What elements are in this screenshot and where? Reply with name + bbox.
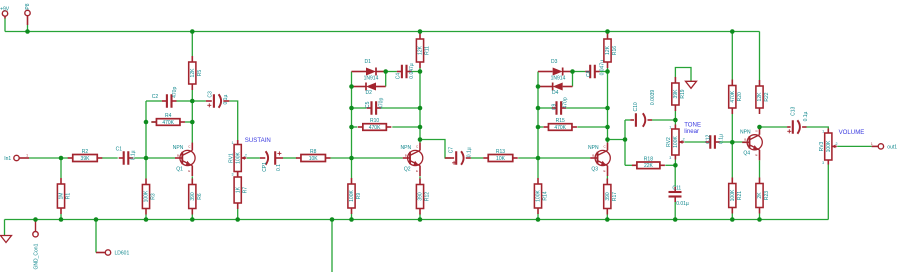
resistor R2 bbox=[68, 149, 103, 162]
capacitor C5 bbox=[365, 98, 385, 115]
svg-text:0.01µ: 0.01µ bbox=[676, 201, 689, 207]
wire C4 to R11 node bbox=[412, 71, 421, 73]
wire to Q2 base bbox=[352, 157, 403, 159]
svg-text:C3: C3 bbox=[208, 91, 214, 98]
resistor R16 bbox=[604, 33, 618, 68]
wire C10 to RV2 node bbox=[652, 119, 675, 121]
svg-text:R11: R11 bbox=[425, 46, 431, 55]
wire R10 right sliver bbox=[392, 126, 420, 128]
resistor R12 bbox=[416, 179, 430, 215]
resistor R13 bbox=[483, 149, 518, 162]
wire rail to R22 bbox=[759, 32, 761, 81]
wire In1 to R2 bbox=[29, 157, 68, 159]
svg-text:NPN: NPN bbox=[401, 145, 412, 151]
svg-text:R20: R20 bbox=[737, 92, 743, 101]
wire C9 left bbox=[538, 107, 551, 109]
wire diodes to C8 bbox=[573, 71, 586, 73]
resistor R6 bbox=[189, 179, 203, 215]
svg-text:R17: R17 bbox=[612, 192, 618, 201]
wire rail to R20 bbox=[731, 32, 733, 80]
svg-text:C10: C10 bbox=[633, 102, 639, 111]
wire stage3 diode right bar bbox=[572, 72, 574, 87]
wire +9V drop bbox=[4, 19, 6, 32]
wire to C10 bbox=[625, 119, 630, 121]
svg-text:C4: C4 bbox=[396, 73, 402, 80]
wire R4 left sliver bbox=[151, 121, 156, 123]
svg-text:VOLUME: VOLUME bbox=[839, 129, 865, 136]
wire Q2 emitter to R12 bbox=[419, 176, 421, 178]
svg-text:C12: C12 bbox=[705, 135, 711, 144]
svg-text:470K: 470K bbox=[369, 125, 381, 131]
svg-text:1N914: 1N914 bbox=[551, 76, 566, 82]
resistor R3 bbox=[142, 179, 156, 215]
svg-text:R15: R15 bbox=[556, 118, 565, 124]
resistor R1 bbox=[57, 178, 71, 214]
svg-text:Q3: Q3 bbox=[591, 166, 598, 172]
wire R23 to rail bbox=[759, 214, 761, 220]
capacitor C9 bbox=[552, 97, 569, 115]
svg-text:R21: R21 bbox=[737, 191, 743, 200]
wire C13 to RV3 bbox=[807, 127, 829, 129]
svg-text:C8: C8 bbox=[586, 70, 592, 77]
wire C11 to rail bbox=[674, 202, 676, 220]
wire stage3 left vertical bbox=[537, 72, 539, 179]
wire R1 to rail bbox=[60, 214, 62, 220]
wire RV2 pin3 sliver bbox=[674, 160, 676, 166]
svg-text:R23: R23 bbox=[764, 191, 770, 200]
svg-text:R22: R22 bbox=[764, 92, 770, 101]
wire stub leaving bottom edge bbox=[331, 220, 333, 272]
capacitor C7 bbox=[448, 147, 472, 165]
wire R13 to Q3 base node bbox=[518, 157, 538, 159]
svg-text:E: E bbox=[604, 169, 606, 173]
connector P8 bbox=[25, 10, 30, 15]
wire rail to R11 bbox=[419, 32, 421, 34]
svg-text:R12: R12 bbox=[425, 192, 431, 201]
svg-text:2: 2 bbox=[683, 138, 685, 142]
svg-text:1N914: 1N914 bbox=[364, 76, 379, 82]
svg-text:3: 3 bbox=[669, 156, 671, 160]
svg-text:0.047µ: 0.047µ bbox=[409, 63, 415, 79]
svg-text:12K: 12K bbox=[757, 92, 763, 102]
svg-text:C: C bbox=[188, 145, 191, 149]
svg-text:NPN: NPN bbox=[173, 145, 184, 151]
wire C5 left bbox=[352, 107, 367, 109]
svg-text:39K: 39K bbox=[673, 89, 679, 99]
connector out1 bbox=[878, 144, 883, 149]
wire RV3 wiper to out1 bbox=[837, 145, 871, 147]
svg-text:2: 2 bbox=[245, 154, 247, 158]
svg-text:100K: 100K bbox=[673, 136, 679, 148]
diode D1 bbox=[352, 68, 386, 76]
capacitor C13 bbox=[787, 107, 809, 134]
svg-text:R3: R3 bbox=[151, 193, 157, 200]
resistor R10 bbox=[358, 118, 392, 131]
wire stage2 left vertical bbox=[351, 72, 353, 179]
wire ground bottom rail bbox=[5, 219, 829, 221]
svg-text:B: B bbox=[405, 153, 407, 157]
svg-text:C5: C5 bbox=[365, 101, 371, 108]
capacitor C3 bbox=[207, 91, 229, 108]
svg-text:0.1µ: 0.1µ bbox=[718, 134, 724, 144]
svg-text:100K: 100K bbox=[349, 190, 355, 202]
wire base node to R21 bbox=[731, 142, 733, 177]
transistor Q1 bbox=[173, 143, 195, 176]
svg-text:12K: 12K bbox=[190, 68, 196, 78]
svg-text:390: 390 bbox=[190, 192, 196, 201]
wire R15 left sliver bbox=[538, 126, 543, 128]
wire R2 to C1 bbox=[102, 157, 118, 159]
transistor Q2 bbox=[401, 143, 423, 176]
resistor R18 bbox=[632, 156, 665, 169]
svg-text:390: 390 bbox=[418, 192, 424, 201]
wire stage2 right vertical bbox=[419, 68, 421, 143]
wire C5 right bbox=[381, 107, 420, 109]
wire R10 left sliver bbox=[352, 126, 358, 128]
wire stage2 diode right bar bbox=[385, 72, 387, 87]
svg-text:R16: R16 bbox=[612, 46, 618, 55]
svg-text:+9V: +9V bbox=[0, 6, 10, 12]
wire stage3 right vertical bbox=[607, 68, 609, 143]
svg-text:100K: 100K bbox=[536, 190, 542, 202]
svg-text:470K: 470K bbox=[730, 90, 736, 102]
svg-text:E: E bbox=[756, 153, 758, 157]
wire R14 to rail bbox=[537, 214, 539, 220]
svg-text:470K: 470K bbox=[554, 125, 566, 131]
wire R15 right sliver bbox=[577, 126, 607, 128]
svg-text:D4: D4 bbox=[552, 90, 559, 96]
wire C7 to R13 bbox=[471, 157, 484, 159]
svg-text:E: E bbox=[416, 169, 418, 173]
svg-text:100K: 100K bbox=[144, 190, 150, 202]
resistor R11 bbox=[416, 33, 430, 68]
svg-text:R10: R10 bbox=[370, 118, 379, 124]
resistor R23 bbox=[756, 178, 770, 214]
resistor R19 bbox=[672, 77, 686, 111]
svg-text:C13: C13 bbox=[791, 107, 797, 116]
svg-text:R1: R1 bbox=[66, 193, 72, 200]
svg-text:SUSTAIN: SUSTAIN bbox=[245, 137, 271, 144]
wire to Q3 base bbox=[538, 157, 590, 159]
svg-text:12K: 12K bbox=[418, 45, 424, 55]
wire R9 to rail bbox=[351, 214, 353, 220]
svg-text:C9: C9 bbox=[552, 103, 558, 110]
svg-text:C11: C11 bbox=[672, 185, 681, 191]
wire R18 to RV2 pin3 bbox=[665, 164, 675, 166]
wire RV3 pin3 to rail bbox=[827, 165, 829, 220]
potentiometer RV3 volume bbox=[819, 129, 838, 165]
svg-text:1: 1 bbox=[822, 129, 824, 133]
capacitor C10 bbox=[633, 90, 656, 127]
wire node to RV2 pin1 bbox=[674, 120, 676, 125]
wire CP1 to R8 bbox=[283, 157, 297, 159]
power terminal +9V bbox=[2, 11, 7, 16]
resistor R17 bbox=[604, 179, 618, 215]
wire R6 to rail bbox=[191, 215, 193, 220]
svg-text:D3: D3 bbox=[551, 59, 558, 65]
transistor Q4 bbox=[740, 127, 762, 160]
capacitor C4 bbox=[396, 63, 415, 79]
svg-text:linear: linear bbox=[684, 128, 699, 135]
svg-text:3: 3 bbox=[822, 161, 824, 165]
wire node to R1 bbox=[60, 158, 62, 178]
svg-text:0.1µ: 0.1µ bbox=[130, 150, 136, 160]
resistor R21 bbox=[729, 178, 743, 214]
wire R19 to ground bbox=[675, 68, 691, 82]
wire Q3 collector to tone node bbox=[608, 139, 626, 141]
svg-text:C: C bbox=[416, 145, 419, 149]
wire node to R3 bbox=[145, 158, 147, 179]
svg-text:C: C bbox=[604, 145, 607, 149]
potentiometer RV2 tone bbox=[666, 125, 685, 160]
svg-text:RV3: RV3 bbox=[819, 141, 825, 151]
svg-text:R8: R8 bbox=[310, 149, 317, 155]
wire +9V top rail bbox=[5, 31, 760, 33]
wire R7 to ground rail bbox=[237, 209, 239, 220]
svg-text:0.0039: 0.0039 bbox=[650, 90, 656, 106]
svg-text:R6: R6 bbox=[197, 193, 203, 200]
wire Q4 collector to C13 bbox=[760, 126, 788, 128]
resistor R22 bbox=[756, 80, 770, 114]
svg-text:NPN: NPN bbox=[588, 145, 599, 151]
capacitor C2 bbox=[152, 87, 178, 108]
svg-text:C2: C2 bbox=[152, 94, 159, 100]
svg-text:1: 1 bbox=[232, 141, 234, 145]
wire C12 to Q4 base bbox=[720, 141, 746, 143]
wire node to C3 bbox=[192, 100, 206, 102]
wire rail to LD601 bbox=[95, 220, 97, 253]
wire RV2 wiper to C12 bbox=[684, 141, 705, 143]
svg-text:3: 3 bbox=[232, 172, 234, 176]
svg-text:1: 1 bbox=[669, 125, 671, 129]
wire RV1 wiper to CP1 bbox=[247, 157, 260, 159]
svg-text:12K: 12K bbox=[605, 45, 611, 55]
wire tone vertical bbox=[624, 120, 626, 165]
svg-text:LD601: LD601 bbox=[115, 251, 130, 257]
svg-text:1K: 1K bbox=[235, 186, 241, 193]
svg-text:100K: 100K bbox=[235, 152, 241, 164]
connector LD601 bbox=[105, 250, 110, 255]
diode D2 bbox=[352, 83, 386, 91]
svg-text:R4: R4 bbox=[165, 113, 172, 119]
svg-text:R18: R18 bbox=[644, 156, 653, 162]
connector In1 bbox=[14, 155, 19, 160]
wire Q4 emitter to R23 bbox=[759, 160, 761, 177]
svg-text:C1: C1 bbox=[116, 146, 123, 152]
ground symbol main bbox=[1, 236, 12, 243]
svg-text:R2: R2 bbox=[82, 149, 89, 155]
resistor R5 bbox=[189, 56, 203, 90]
wire Q2 collector to C7 bbox=[420, 140, 451, 159]
svg-text:P8: P8 bbox=[25, 3, 31, 9]
wire C8 to R16 node bbox=[600, 71, 608, 73]
svg-text:B: B bbox=[744, 138, 746, 142]
wire R17 to rail bbox=[606, 214, 608, 220]
svg-text:C: C bbox=[756, 129, 759, 133]
svg-text:Q4: Q4 bbox=[743, 151, 750, 157]
svg-text:R14: R14 bbox=[543, 191, 549, 200]
svg-text:0.1: 0.1 bbox=[276, 164, 282, 171]
svg-text:1: 1 bbox=[871, 142, 873, 146]
capacitor C1 bbox=[116, 146, 137, 164]
svg-text:39K: 39K bbox=[81, 156, 91, 162]
svg-text:470p: 470p bbox=[563, 97, 569, 108]
wire diodes to C4 bbox=[386, 71, 397, 73]
capacitor CP1 bbox=[262, 151, 282, 172]
resistor R14 bbox=[534, 178, 548, 214]
resistor R8 bbox=[296, 149, 331, 162]
wire rail to R16 bbox=[607, 32, 609, 34]
svg-text:RV1: RV1 bbox=[228, 153, 234, 163]
wire R21 to rail bbox=[731, 214, 733, 220]
svg-text:B: B bbox=[592, 153, 594, 157]
svg-text:1M: 1M bbox=[59, 193, 65, 200]
resistor R20 bbox=[729, 80, 743, 115]
connector GND_Con1 bbox=[33, 232, 38, 237]
svg-text:1: 1 bbox=[26, 153, 28, 157]
svg-text:2: 2 bbox=[836, 142, 838, 146]
diode D3 bbox=[538, 68, 573, 76]
capacitor C11 bbox=[669, 185, 689, 207]
wire R19 to node bbox=[674, 111, 676, 120]
potentiometer RV1 sustain bbox=[228, 140, 247, 176]
svg-text:D2: D2 bbox=[366, 90, 373, 96]
svg-text:10K: 10K bbox=[496, 156, 506, 162]
svg-text:0.1µ: 0.1µ bbox=[223, 95, 229, 105]
diode D4 bbox=[538, 83, 573, 91]
svg-text:CP1: CP1 bbox=[262, 162, 268, 172]
svg-text:D1: D1 bbox=[365, 59, 372, 65]
wire C9 right bbox=[566, 107, 607, 109]
svg-text:C7: C7 bbox=[448, 147, 454, 154]
resistor R4 bbox=[151, 113, 185, 126]
wire R20 to base node bbox=[731, 114, 733, 142]
resistor R7 bbox=[234, 171, 248, 209]
svg-text:R5: R5 bbox=[197, 70, 203, 77]
svg-text:In1: In1 bbox=[4, 156, 11, 162]
wire R8 to Q2 base node bbox=[330, 157, 351, 159]
svg-text:2K: 2K bbox=[757, 192, 763, 199]
ground symbol tone bbox=[686, 81, 697, 88]
svg-text:470p: 470p bbox=[172, 87, 178, 98]
svg-text:10K: 10K bbox=[309, 156, 319, 162]
wire C3 to RV1 bbox=[229, 101, 237, 141]
svg-text:0.1µ: 0.1µ bbox=[466, 147, 472, 157]
svg-text:E: E bbox=[188, 169, 190, 173]
wire R3 to rail bbox=[145, 215, 147, 220]
svg-text:470p: 470p bbox=[379, 98, 385, 109]
svg-text:out1: out1 bbox=[887, 145, 897, 151]
wire rail to ground symbol bbox=[4, 220, 6, 236]
svg-text:22K: 22K bbox=[644, 163, 654, 169]
svg-text:RV2: RV2 bbox=[666, 137, 672, 147]
svg-text:100K: 100K bbox=[826, 140, 832, 152]
wire C2 right to collector node bbox=[177, 100, 193, 102]
wire Q3 emitter to R17 bbox=[606, 176, 608, 179]
wire to C2 left bbox=[146, 100, 162, 102]
wire R5 to node bbox=[191, 90, 193, 101]
svg-text:R7: R7 bbox=[242, 187, 248, 194]
wire Q1 emitter to R6 bbox=[191, 176, 193, 178]
capacitor C12 bbox=[705, 134, 724, 149]
wire collector vertical Q1 bbox=[191, 101, 193, 143]
svg-text:Q1: Q1 bbox=[176, 166, 183, 172]
wire base node vertical bbox=[145, 101, 147, 158]
resistor R9 bbox=[348, 178, 362, 214]
transistor Q3 bbox=[588, 143, 610, 176]
wire rail to R5 bbox=[191, 32, 193, 57]
svg-text:NPN: NPN bbox=[740, 129, 751, 135]
svg-text:470K: 470K bbox=[162, 120, 174, 126]
svg-text:R9: R9 bbox=[356, 193, 362, 200]
svg-text:B: B bbox=[177, 153, 179, 157]
svg-text:R19: R19 bbox=[680, 89, 686, 98]
resistor R15 bbox=[543, 118, 577, 131]
svg-text:GND_Con1: GND_Con1 bbox=[33, 243, 39, 269]
wire R4 right to collector bbox=[185, 121, 192, 123]
svg-text:Q2: Q2 bbox=[404, 166, 411, 172]
capacitor C8 bbox=[585, 60, 605, 78]
wire tone to R18 bbox=[625, 164, 632, 166]
wire R12 to rail bbox=[419, 214, 421, 220]
svg-text:0.1µ: 0.1µ bbox=[803, 111, 809, 121]
svg-text:100K: 100K bbox=[730, 189, 736, 201]
svg-text:R13: R13 bbox=[496, 149, 505, 155]
wire C1 to Q1 base bbox=[134, 157, 175, 159]
wire node to C11 bbox=[674, 165, 676, 187]
svg-text:390: 390 bbox=[605, 192, 611, 201]
wire P8 to rail bbox=[27, 25, 29, 32]
